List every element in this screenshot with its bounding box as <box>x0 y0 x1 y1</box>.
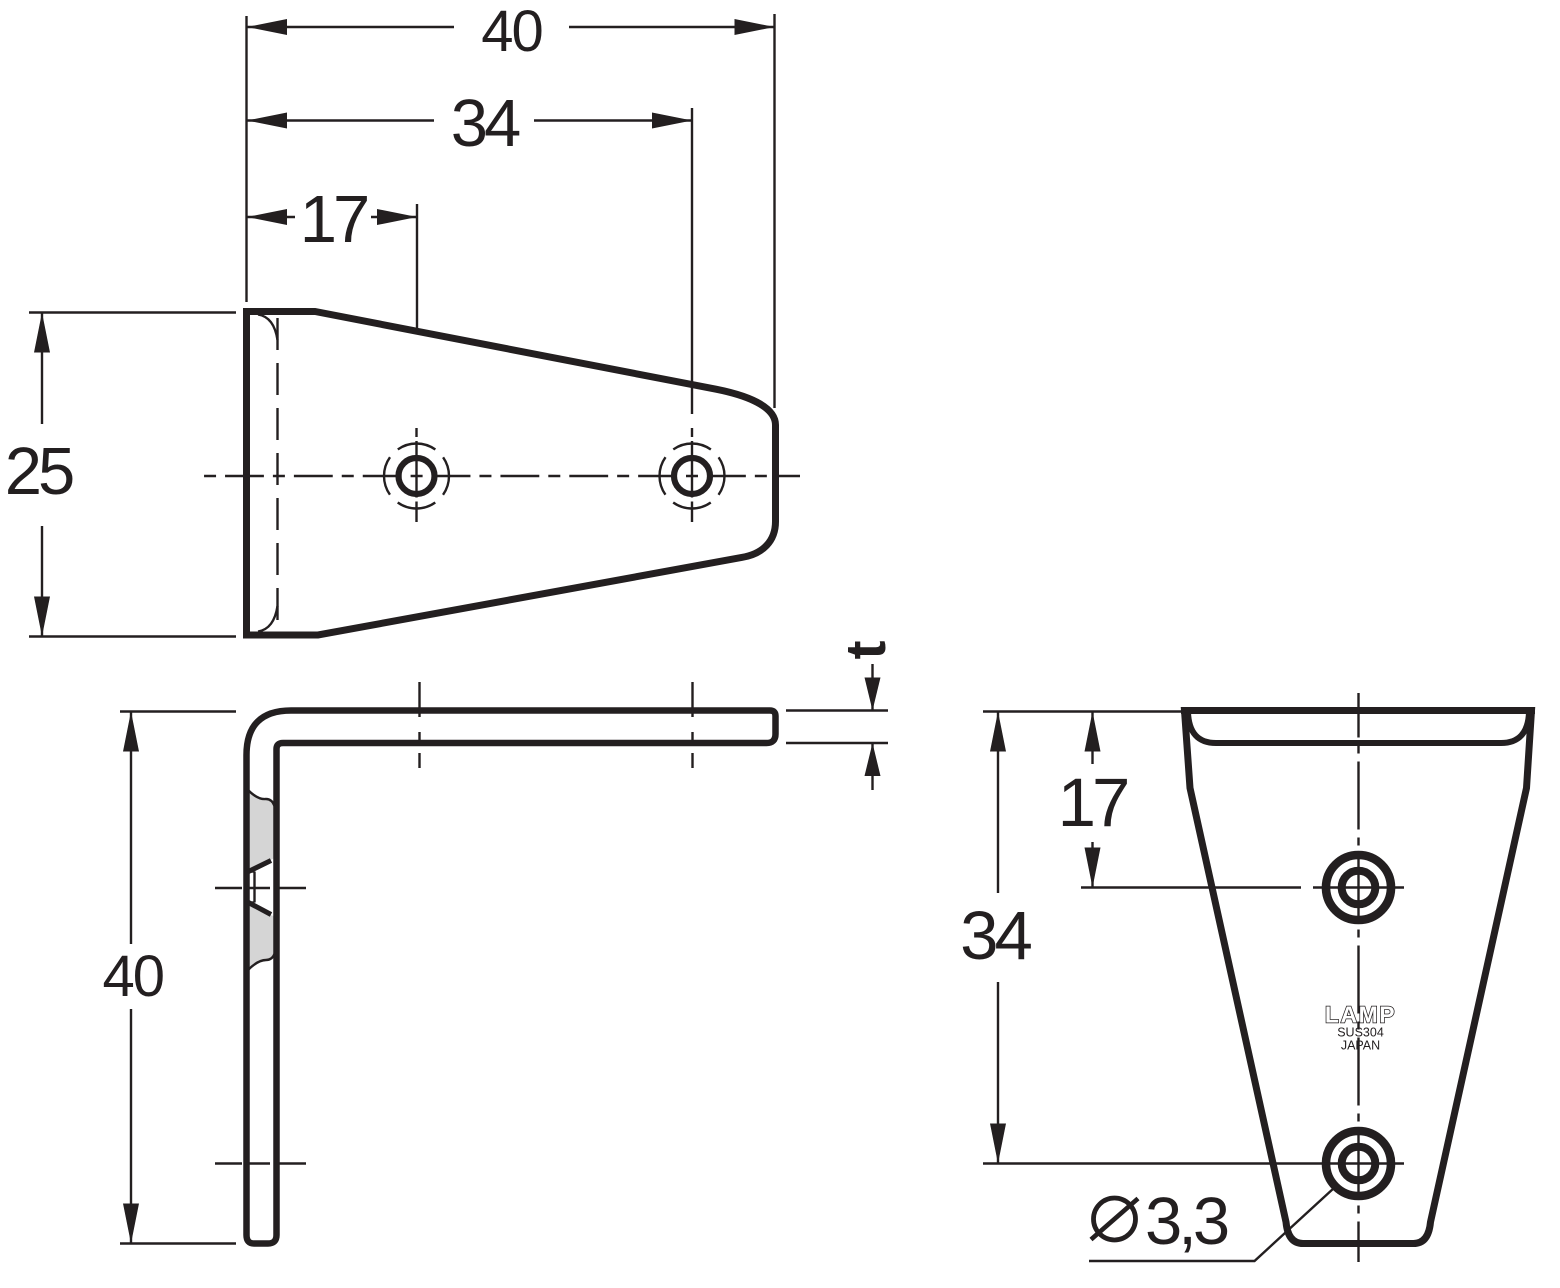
svg-text:17: 17 <box>300 182 367 257</box>
svg-text:17: 17 <box>1058 764 1127 841</box>
svg-text:34: 34 <box>960 897 1031 974</box>
svg-text:25: 25 <box>5 434 73 509</box>
svg-text:40: 40 <box>481 0 542 64</box>
svg-text:LAMP: LAMP <box>1325 1002 1396 1028</box>
svg-text:SUS304: SUS304 <box>1337 1026 1384 1040</box>
svg-text:34: 34 <box>451 86 520 161</box>
svg-text:3,3: 3,3 <box>1145 1184 1228 1259</box>
svg-text:40: 40 <box>102 944 163 1009</box>
svg-text:JAPAN: JAPAN <box>1341 1039 1380 1053</box>
svg-text:t: t <box>834 640 898 659</box>
